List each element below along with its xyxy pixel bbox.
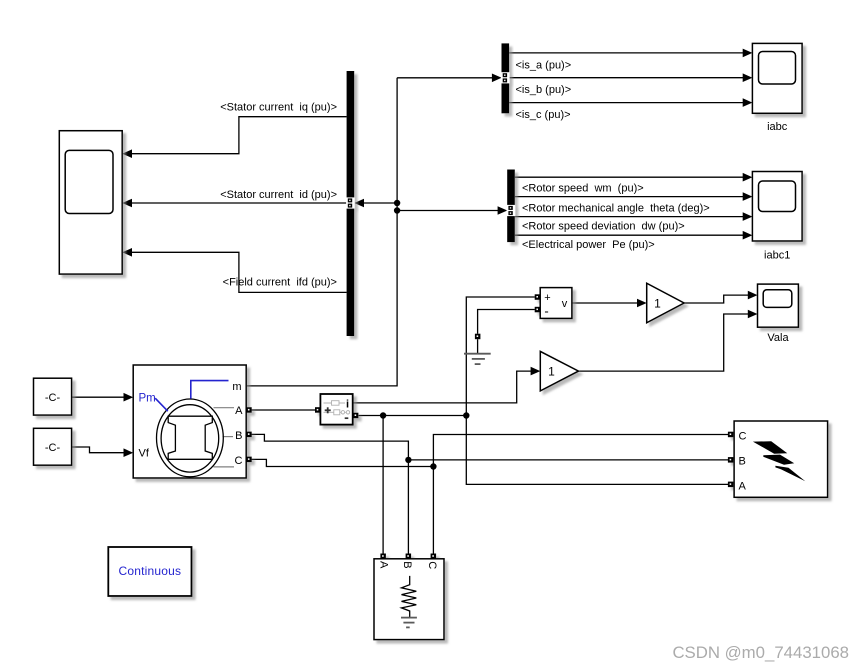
svg-text:<is_c (pu)>: <is_c (pu)> bbox=[516, 109, 571, 121]
svg-text:<Rotor speed deviation dw (pu: <Rotor speed deviation dw (pu)> bbox=[522, 221, 685, 233]
arrowhead scope iabc input 1 bbox=[743, 49, 753, 58]
svg-text:m: m bbox=[232, 381, 241, 393]
fault lightning bolt icon bbox=[753, 441, 805, 481]
svg-text:Vf: Vf bbox=[139, 448, 150, 460]
svg-text:<is_b (pu)>: <is_b (pu)> bbox=[516, 84, 572, 96]
arrowhead Scope1 input 3 bbox=[122, 248, 132, 257]
scope Scope1 (top left) bbox=[59, 131, 122, 274]
wire phase C drop to load port C bbox=[432, 467, 434, 555]
arrowhead scope iabc input 2 bbox=[743, 73, 753, 82]
svg-text:<Rotor speed wm (pu)>: <Rotor speed wm (pu)> bbox=[522, 183, 644, 195]
arrowhead into bus selector B1 bbox=[354, 199, 364, 208]
node C1 phase C to fault and load bbox=[430, 463, 436, 469]
svg-text:Continuous: Continuous bbox=[119, 564, 182, 578]
wire is_c: B2 to scope iabc input 3 bbox=[509, 102, 744, 104]
three-phase fault block F1 bbox=[728, 421, 828, 497]
machine inner ellipse bbox=[161, 405, 219, 472]
svg-text:+: + bbox=[544, 292, 550, 304]
svg-text:-C-: -C- bbox=[45, 392, 61, 404]
arrowhead machine Vf input bbox=[124, 448, 134, 457]
svg-text:1: 1 bbox=[654, 296, 661, 310]
wire id: bus selector B1 to Scope1 input 2 bbox=[131, 202, 347, 204]
machine blue m leader line bbox=[191, 381, 229, 399]
wire machine C to node C1 bbox=[251, 459, 433, 466]
machine I-beam icon bbox=[168, 416, 212, 459]
svg-text:Pm: Pm bbox=[139, 392, 156, 404]
svg-text:CSDN @m0_74431068: CSDN @m0_74431068 bbox=[672, 643, 849, 662]
svg-text:<Rotor mechanical angle theta: <Rotor mechanical angle theta (deg)> bbox=[522, 203, 710, 215]
node J2 on m trunk (to B3) bbox=[394, 207, 400, 213]
svg-text:B: B bbox=[235, 430, 242, 442]
svg-text:<Electrical power Pe (pu)>: <Electrical power Pe (pu)> bbox=[522, 239, 655, 251]
node J1 on m trunk (to B1) bbox=[394, 200, 400, 206]
wire is_a: B2 to scope iabc input 1 bbox=[509, 52, 744, 54]
wire constant 2 to machine Vf bbox=[72, 447, 125, 453]
machine stub B (gray) bbox=[223, 436, 234, 438]
arrowhead gain G2 input bbox=[531, 367, 541, 376]
wire m trunk: machine m output up to bus selectors bbox=[246, 78, 397, 386]
arrowhead scope Vala input 1 bbox=[748, 291, 758, 300]
wire ifd: bus selector B1 to Scope1 input 3 bbox=[131, 252, 347, 292]
three-phase RLC load block L1 bbox=[374, 554, 444, 640]
svg-text:i: i bbox=[346, 399, 349, 411]
arrowhead scope Vala input 2 bbox=[748, 310, 758, 319]
wire phase C branch up to fault port C bbox=[433, 435, 728, 467]
node A1 phase A to load bbox=[380, 412, 386, 418]
arrowhead scope iabc1 input 3 bbox=[743, 212, 753, 221]
arrowhead scope iabc1 input 2 bbox=[743, 192, 753, 201]
wire to bus selector B3 (mid right) bbox=[397, 210, 499, 212]
scope iabc1 bbox=[752, 172, 802, 242]
gain G2 bbox=[540, 351, 578, 391]
arrowhead Scope1 input 1 bbox=[122, 149, 132, 158]
wire i measurement output to gain G2 bbox=[353, 371, 532, 403]
svg-text:B: B bbox=[401, 561, 413, 568]
svg-text:A: A bbox=[235, 405, 243, 417]
machine stub A (gray) bbox=[214, 407, 235, 409]
wire phase A to fault port A bbox=[466, 416, 728, 485]
load ground bars bbox=[401, 618, 417, 628]
svg-text:<Stator current id (pu)>: <Stator current id (pu)> bbox=[220, 189, 337, 201]
constant C1 (Pm) bbox=[34, 378, 72, 415]
wire gain G2 output to scope Vala input 2 bbox=[579, 314, 750, 371]
voltage measurement U1 bbox=[535, 288, 572, 319]
arrowhead scope iabc input 3 bbox=[743, 98, 753, 107]
svg-text:C: C bbox=[739, 430, 747, 442]
svg-text:1: 1 bbox=[548, 364, 555, 378]
JUNCTION DOTS bbox=[380, 200, 470, 470]
svg-text:A: A bbox=[739, 480, 747, 492]
SIGNAL LABELS bbox=[220, 59, 710, 288]
arrowhead machine Pm input bbox=[124, 393, 134, 402]
wire gain G1 output to scope Vala input 1 bbox=[684, 295, 749, 303]
svg-text:C: C bbox=[426, 561, 438, 569]
wire machine A to current measurement input bbox=[251, 409, 315, 411]
svg-text:C: C bbox=[235, 455, 243, 467]
machine stub C (gray) bbox=[214, 466, 235, 468]
wire machine B to load port B bbox=[251, 434, 408, 554]
node A2 phase A to fault and V+ bbox=[463, 412, 469, 418]
svg-text:<Field current ifd (pu)>: <Field current ifd (pu)> bbox=[223, 277, 337, 289]
svg-text:-: - bbox=[544, 304, 548, 319]
wire V+ sense down to node on phase A bbox=[466, 297, 535, 416]
arrowhead into bus selector B3 bbox=[498, 206, 508, 215]
current measurement internals (gray mini circuit) bbox=[324, 401, 350, 415]
wire wm: B3 to scope iabc1 input 1 bbox=[515, 176, 744, 178]
scope Vala bbox=[758, 284, 799, 327]
wire V- sense to ground bbox=[478, 310, 535, 334]
arrowhead gain G1 input bbox=[637, 299, 647, 308]
wire iq: bus selector B1 to Scope1 input 1 bbox=[131, 117, 347, 154]
wire to bus selector B2 (top right) bbox=[397, 77, 493, 79]
wire phase A drop to load port A bbox=[382, 416, 384, 555]
ground symbol (for V-) bbox=[464, 334, 491, 364]
machine outer ellipse bbox=[157, 399, 224, 477]
load resistor icon bbox=[402, 576, 417, 618]
label + of current measurement bbox=[325, 407, 331, 413]
wire voltage measurement output to gain G1 bbox=[572, 302, 639, 304]
constant C2 (Vf) bbox=[34, 428, 72, 465]
svg-text:iabc1: iabc1 bbox=[764, 249, 790, 261]
bus selector B3 (mid right) bbox=[507, 170, 516, 243]
ARROWHEADS bbox=[122, 49, 757, 457]
svg-text:<is_a (pu)>: <is_a (pu)> bbox=[516, 59, 572, 71]
wire phase A: current meas. output to node A2 bbox=[359, 415, 467, 417]
arrowhead scope iabc1 input 4 bbox=[743, 231, 753, 240]
wire theta: B3 to scope iabc1 input 2 bbox=[515, 196, 744, 198]
powergui Continuous block bbox=[108, 547, 191, 596]
arrowhead into bus selector B2 bbox=[492, 74, 502, 83]
wire is_b: B2 to scope iabc input 2 bbox=[509, 77, 744, 79]
scope iabc bbox=[752, 43, 802, 113]
bus selector B2 (top right) bbox=[501, 43, 510, 113]
svg-text:-C-: -C- bbox=[45, 442, 61, 454]
bus selector B1 (left, mirrored) bbox=[346, 71, 355, 336]
gain G1 bbox=[647, 283, 684, 323]
machine blue Pm leader line bbox=[155, 398, 168, 411]
node B1 phase B to fault bbox=[405, 457, 411, 463]
label - of current measurement bbox=[345, 417, 349, 419]
arrowhead scope iabc1 input 1 bbox=[743, 173, 753, 182]
svg-text:B: B bbox=[739, 455, 746, 467]
arrowhead Scope1 input 2 bbox=[122, 199, 132, 208]
wire phase B branch to fault port B bbox=[408, 459, 728, 461]
wire constant 1 to machine Pm bbox=[72, 396, 125, 398]
wire into bus selector B1 (left) bbox=[363, 202, 398, 204]
svg-text:v: v bbox=[562, 298, 568, 310]
current measurement I1 bbox=[315, 394, 358, 425]
svg-text:Vala: Vala bbox=[767, 332, 789, 344]
svg-text:A: A bbox=[378, 561, 390, 569]
svg-text:<Stator current iq (pu)>: <Stator current iq (pu)> bbox=[220, 102, 337, 114]
wire dw: B3 to scope iabc1 input 3 bbox=[515, 216, 744, 218]
synchronous machine SM bbox=[133, 365, 252, 478]
svg-text:iabc: iabc bbox=[767, 121, 788, 133]
wire Pe: B3 to scope iabc1 input 4 bbox=[515, 234, 744, 236]
